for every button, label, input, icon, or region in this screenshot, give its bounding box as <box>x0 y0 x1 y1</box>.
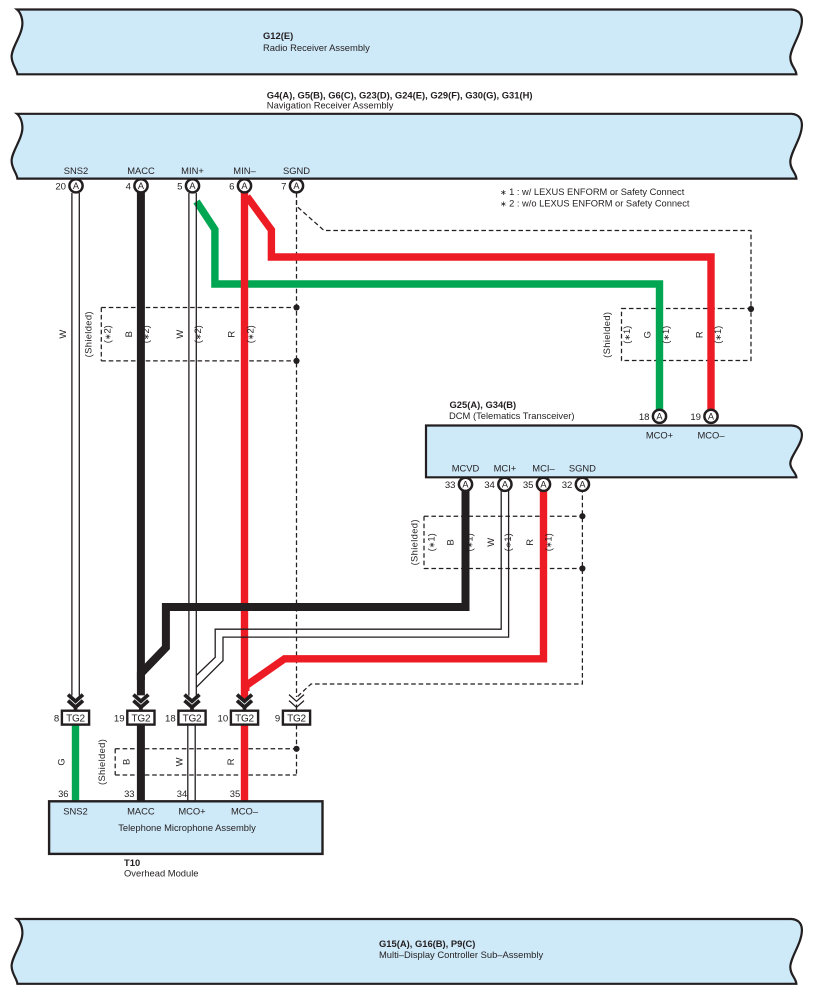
svg-text:(∗1): (∗1) <box>542 533 553 551</box>
svg-text:33: 33 <box>445 480 456 491</box>
svg-text:18: 18 <box>165 714 176 725</box>
pin 32 (SGND) connector A <box>562 478 589 491</box>
svg-text:TG2: TG2 <box>66 714 85 725</box>
svg-text:(Shielded): (Shielded) <box>409 519 420 565</box>
svg-text:(∗2): (∗2) <box>102 325 113 343</box>
svg-text:Overhead Module: Overhead Module <box>124 868 199 879</box>
shield wire from SGND pin 7 to top-right shield run <box>297 193 752 309</box>
shield box bottom (B W R) <box>115 749 296 775</box>
svg-text:(Shielded): (Shielded) <box>601 312 612 358</box>
wire W TG2 18 to mic MCO+ pin 34 (double line) <box>188 725 195 802</box>
svg-text:MCO–: MCO– <box>231 805 259 816</box>
wire R (*1) MIN- pin 6 to DCM MCO- pin 19 <box>247 197 711 413</box>
svg-text:W: W <box>173 757 184 766</box>
svg-text:Radio Receiver Assembly: Radio Receiver Assembly <box>263 42 370 53</box>
shield wire SGND pin 7 down to TG2 9 <box>296 200 298 697</box>
wire G TG2 8 to mic SNS2 pin 36 <box>72 725 79 802</box>
svg-text:9: 9 <box>275 714 280 725</box>
svg-text:18: 18 <box>639 412 650 423</box>
svg-text:Multi–Display Controller Sub–A: Multi–Display Controller Sub–Assembly <box>379 949 543 960</box>
svg-text:TG2: TG2 <box>183 714 202 725</box>
svg-text:A: A <box>189 181 196 191</box>
pin 33 (MCVD) connector A <box>445 478 472 491</box>
svg-text:Telephone Microphone Assembly: Telephone Microphone Assembly <box>118 822 256 833</box>
svg-text:SGND: SGND <box>283 165 310 176</box>
shield junction dot <box>748 306 754 312</box>
wire W DCM MCI+ pin 34 joining TG2 18 (double line) <box>196 488 508 687</box>
svg-text:7: 7 <box>281 181 286 192</box>
svg-text:A: A <box>73 181 80 191</box>
shield box right (G R *1) <box>622 309 752 361</box>
svg-text:B: B <box>444 539 455 545</box>
svg-text:MCO–: MCO– <box>697 429 725 440</box>
svg-text:A: A <box>462 480 469 490</box>
svg-text:19: 19 <box>690 412 701 423</box>
wire B MACC pin 4 to TG2 19 <box>137 190 145 695</box>
connector TG2 pin 18 <box>165 711 206 725</box>
svg-text:32: 32 <box>562 480 573 491</box>
svg-text:MIN+: MIN+ <box>181 165 204 176</box>
pin 6 (MIN-) connector A <box>229 179 251 192</box>
svg-text:SNS2: SNS2 <box>64 165 89 176</box>
svg-text:TG2: TG2 <box>131 714 150 725</box>
svg-text:34: 34 <box>177 788 187 799</box>
svg-text:R: R <box>524 539 535 546</box>
svg-text:∗ 2 : w/o LEXUS ENFORM or Safe: ∗ 2 : w/o LEXUS ENFORM or Safety Connect <box>500 198 690 208</box>
svg-text:A: A <box>708 412 715 422</box>
svg-text:A: A <box>293 181 300 191</box>
svg-text:MACC: MACC <box>127 165 155 176</box>
svg-text:A: A <box>138 181 145 191</box>
connector TG2 pin 19 <box>114 711 155 725</box>
svg-text:(∗1): (∗1) <box>621 326 632 344</box>
wire R DCM MCI- pin 35 joining TG2 10 <box>246 488 544 691</box>
svg-text:35: 35 <box>523 480 534 491</box>
shield junction dot <box>293 358 299 364</box>
wire W (*2) MIN+ pin 5 to TG2 18 (double line) <box>189 193 196 696</box>
shield junction dot <box>293 304 299 310</box>
svg-text:G: G <box>642 331 653 338</box>
svg-text:(∗1): (∗1) <box>712 326 723 344</box>
pin 4 (MACC) connector A <box>126 179 148 192</box>
svg-text:20: 20 <box>55 181 66 192</box>
svg-text:B: B <box>123 331 134 337</box>
component Telephone Microphone Assembly box <box>49 801 322 854</box>
svg-text:4: 4 <box>126 181 132 192</box>
svg-text:6: 6 <box>229 181 234 192</box>
svg-text:33: 33 <box>124 788 134 799</box>
wire B DCM MCVD pin 33 joining TG2 19 <box>141 488 466 680</box>
svg-text:(∗1): (∗1) <box>502 533 513 551</box>
svg-text:T10: T10 <box>124 857 140 868</box>
connector TG2 pin 9 <box>275 711 310 725</box>
shield box left (B W R *2) <box>101 308 296 361</box>
svg-text:A: A <box>656 412 663 422</box>
svg-text:MACC: MACC <box>127 805 155 816</box>
svg-text:DCM (Telematics Transceiver): DCM (Telematics Transceiver) <box>449 410 575 421</box>
svg-text:A: A <box>579 480 586 490</box>
svg-text:8: 8 <box>54 714 59 725</box>
svg-text:(∗2): (∗2) <box>192 325 203 343</box>
svg-text:R: R <box>225 758 236 765</box>
svg-text:W: W <box>57 330 68 339</box>
svg-text:Navigation Receiver Assembly: Navigation Receiver Assembly <box>267 99 394 110</box>
pin 5 (MIN+) connector A <box>177 179 199 192</box>
svg-text:(∗2): (∗2) <box>140 325 151 343</box>
svg-text:G15(A), G16(B), P9(C): G15(A), G16(B), P9(C) <box>379 938 475 949</box>
svg-text:MIN–: MIN– <box>233 165 256 176</box>
svg-text:19: 19 <box>114 714 125 725</box>
svg-text:TG2: TG2 <box>287 714 306 725</box>
svg-text:34: 34 <box>484 480 495 491</box>
svg-text:MCO+: MCO+ <box>178 805 206 816</box>
svg-text:MCO+: MCO+ <box>646 429 674 440</box>
shield junction dot <box>579 513 585 519</box>
svg-text:MCVD: MCVD <box>452 462 480 473</box>
shield box middle (B W R *1) <box>424 516 582 568</box>
shield junction dot <box>293 746 299 752</box>
banner Multi-Display Controller Sub-Assembly <box>12 919 802 984</box>
svg-text:SGND: SGND <box>569 462 596 473</box>
svg-text:MCI–: MCI– <box>532 462 555 473</box>
svg-text:A: A <box>540 480 547 490</box>
svg-text:(∗1): (∗1) <box>464 533 475 551</box>
connector TG2 pin 8 <box>54 711 89 725</box>
svg-text:W: W <box>485 538 496 547</box>
shield wire TG2 9 down to bottom shield box <box>296 725 298 775</box>
pin 7 (SGND) connector A <box>281 179 303 192</box>
pin 35 (MCI-) connector A <box>523 478 550 491</box>
pin 18 (MCO+) connector A <box>639 410 666 423</box>
svg-text:SNS2: SNS2 <box>63 805 88 816</box>
wire R TG2 10 to mic MCO- pin 35 <box>241 725 248 802</box>
svg-text:G: G <box>56 758 67 765</box>
connector TG2 pin 10 <box>218 711 259 725</box>
svg-text:A: A <box>502 480 509 490</box>
svg-text:(Shielded): (Shielded) <box>83 311 94 357</box>
wire R (*2) MIN- pin 6 to TG2 10 <box>241 190 248 700</box>
svg-text:(∗1): (∗1) <box>660 326 671 344</box>
wire B TG2 19 to mic MACC pin 33 <box>137 725 145 802</box>
banner Navigation Receiver Assembly <box>12 114 802 179</box>
svg-text:5: 5 <box>177 181 182 192</box>
component DCM (Telematics Transceiver) box <box>426 426 802 478</box>
svg-text:35: 35 <box>230 788 240 799</box>
pin 34 (MCI+) connector A <box>484 478 511 491</box>
svg-text:(Shielded): (Shielded) <box>96 739 107 785</box>
connector TG2 pin 19 arrow <box>133 695 148 711</box>
svg-text:G25(A), G34(B): G25(A), G34(B) <box>450 399 517 410</box>
connector TG2 pin 18 arrow <box>185 695 200 711</box>
wire G (*1) MIN+ pin 5 to DCM MCO+ pin 18 <box>197 202 660 413</box>
connector TG2 pin 10 arrow <box>237 695 252 711</box>
svg-text:(∗2): (∗2) <box>245 325 256 343</box>
svg-text:MCI+: MCI+ <box>494 462 517 473</box>
svg-text:G12(E): G12(E) <box>263 30 293 41</box>
svg-text:10: 10 <box>218 714 229 725</box>
svg-text:B: B <box>121 759 132 765</box>
pin 19 (MCO-) connector A <box>690 410 717 423</box>
shield wire from DCM SGND pin 32 to TG2 9 <box>297 488 583 698</box>
wire W SNS2 pin 20 to TG2 8 (double line) <box>72 193 79 696</box>
svg-text:W: W <box>174 330 185 339</box>
svg-text:36: 36 <box>58 788 68 799</box>
connector TG2 pin 8 arrow <box>68 695 83 711</box>
svg-text:TG2: TG2 <box>235 714 254 725</box>
svg-text:R: R <box>226 331 237 338</box>
connector TG2 pin 9 arrow <box>289 695 304 711</box>
svg-text:(∗1): (∗1) <box>426 533 437 551</box>
svg-text:R: R <box>694 331 705 338</box>
svg-text:∗ 1 : w/ LEXUS ENFORM or Safet: ∗ 1 : w/ LEXUS ENFORM or Safety Connect <box>500 187 685 197</box>
pin 20 (SNS2) connector A <box>55 179 82 192</box>
shield junction dot <box>579 565 585 571</box>
svg-text:A: A <box>241 181 248 191</box>
banner G12(E) Radio Receiver Assembly <box>12 10 802 75</box>
